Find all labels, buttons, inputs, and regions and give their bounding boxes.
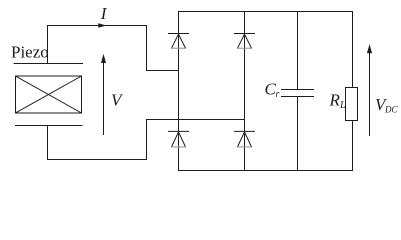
capacitor Cr top plate — [282, 89, 314, 91]
resistor RL body — [346, 88, 358, 121]
wire up to AC node B level — [146, 120, 148, 160]
resistor RL bottom lead — [352, 121, 354, 171]
diode D1 triangle — [172, 34, 186, 48]
svg-text:V: V — [111, 91, 124, 110]
svg-text:L: L — [339, 100, 346, 111]
diode D2 triangle — [238, 34, 252, 48]
svg-text:R: R — [329, 91, 341, 110]
output voltage arrow VDC — [369, 51, 371, 136]
current arrowhead I — [98, 23, 106, 28]
wire down to AC node A — [146, 26, 148, 71]
wire bottom horizontal — [48, 159, 147, 161]
diode D3 triangle — [172, 132, 186, 147]
resistor RL top lead — [352, 12, 354, 88]
diode D2 cathode bar — [235, 33, 255, 35]
capacitor Cr bottom lead — [297, 97, 299, 171]
diode D4 cathode bar — [235, 130, 255, 132]
wire into left bridge column (node A) — [147, 70, 179, 72]
voltage arrowhead V — [101, 54, 106, 63]
right bridge column wire — [244, 12, 246, 171]
svg-text:I: I — [100, 4, 108, 23]
piezo transducer top plate — [14, 63, 83, 65]
diode D1 triangle base — [172, 47, 186, 49]
wire top horizontal to bridge — [48, 25, 147, 27]
diode D1 cathode bar — [169, 33, 189, 35]
wire bottom plate stub down — [47, 126, 49, 160]
piezo transducer bottom plate — [16, 125, 83, 127]
diode D4 triangle — [238, 132, 252, 147]
bridge top rail (+) — [179, 11, 353, 13]
diode D4 triangle base — [238, 146, 252, 148]
diode D3 triangle base — [172, 146, 186, 148]
capacitor Cr bottom plate — [282, 96, 314, 98]
capacitor Cr top lead — [297, 12, 299, 90]
output voltage arrowhead VDC — [367, 44, 372, 53]
svg-text:DC: DC — [384, 105, 398, 115]
diode D2 triangle base — [238, 47, 252, 49]
diode D3 cathode bar — [169, 130, 189, 132]
left bridge column wire — [178, 12, 180, 171]
piezo transducer body (box with X) — [16, 76, 82, 113]
wire top plate stub up — [47, 26, 49, 64]
svg-text:Piezo: Piezo — [11, 43, 49, 62]
svg-text:r: r — [276, 89, 280, 100]
voltage arrow V — [103, 61, 105, 135]
bridge bottom rail (-) — [179, 170, 353, 172]
wire to right bridge column (node B, crosses left column) — [147, 119, 245, 121]
